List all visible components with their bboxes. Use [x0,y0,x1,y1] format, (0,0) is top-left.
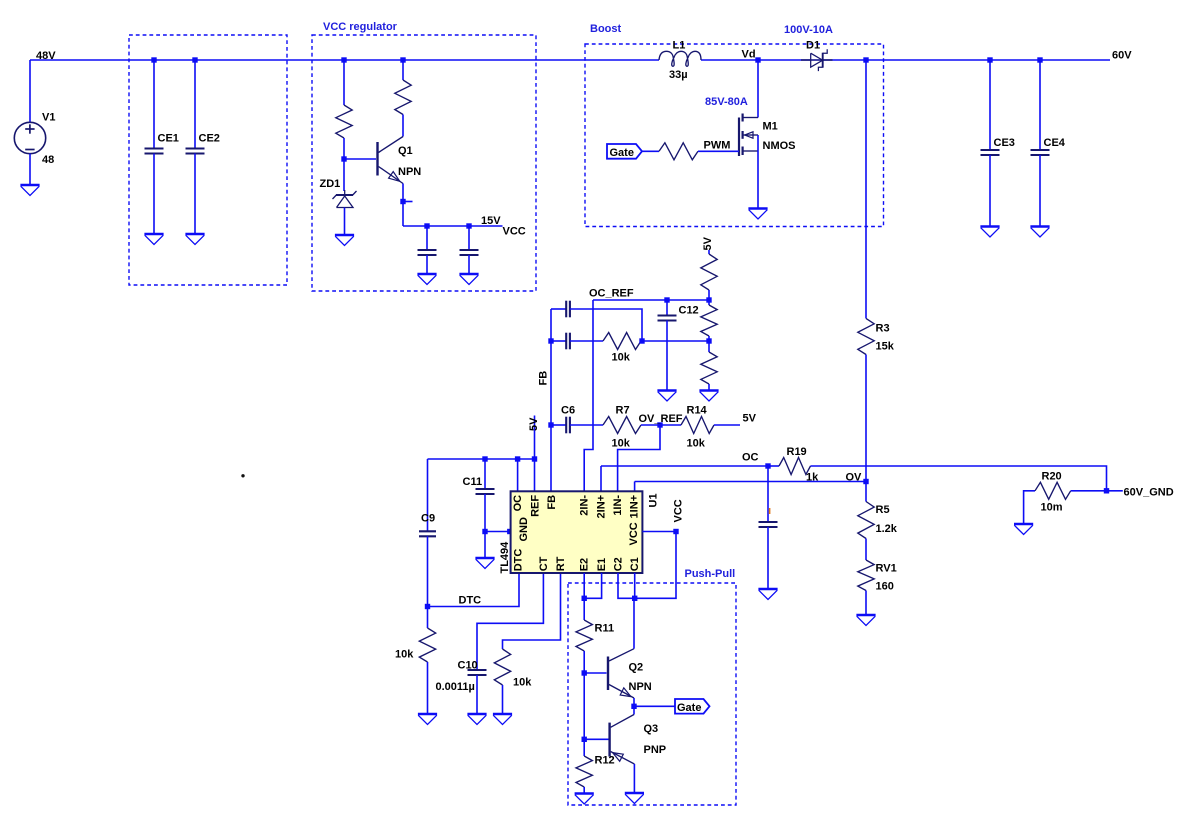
wire vcc cap2 bottom [468,255,470,274]
value PNP [644,744,667,756]
wire C1 drop [634,573,636,598]
wire C2 drop [618,573,635,598]
capacitor Cvcc2 (unlabeled) [460,250,479,255]
capacitor C12 [658,316,677,321]
pin E1 [596,558,608,571]
svg-text:V1: V1 [42,112,55,124]
svg-text:15V: 15V [481,215,501,227]
ground CE1 ground [144,234,163,245]
transistor Q2 NPN [608,649,634,698]
wire M1 drain up to Vd [757,60,759,118]
pin 2IN+ [595,495,607,519]
svg-text:M1: M1 [763,121,778,133]
svg-text:C9: C9 [421,513,435,525]
wire R5 to RV1 [865,539,867,561]
ground C11 ground [475,558,494,569]
wire CE4 bottom [1039,155,1041,227]
net label VCC [503,226,526,238]
net label OC_REF [589,288,634,300]
wire VCC down to C1C2 [635,532,676,599]
net label DTC [459,595,482,607]
svg-text:Vd: Vd [742,49,756,61]
wire Rdtc top lead [427,607,429,629]
svg-text:OC: OC [512,495,524,512]
comment box Boost [585,44,884,227]
wire R11 bottom lead [583,651,585,673]
wire CE2 top [194,60,196,149]
label CE4 [1044,137,1066,149]
svg-text:L1: L1 [673,40,686,52]
wire chain link1b [708,300,710,305]
resistor Rfb 10k [603,333,641,350]
value NMOS [763,140,796,152]
ground CE4 ground [1030,227,1049,238]
svg-text:R19: R19 [787,446,807,458]
capacitor CE2 [186,149,205,154]
node node OC [765,463,770,468]
net label 48V [36,50,56,62]
wire VCC pin wire [642,531,676,533]
svg-text:D1: D1 [806,40,820,52]
wire C6 to R7 [570,424,603,426]
resistor R14 [681,417,714,434]
net label OV_REF [639,413,683,425]
svg-text:TL494: TL494 [499,541,511,574]
svg-text:CT: CT [538,556,550,571]
node node FB-net at chain [706,338,711,343]
svg-text:CE3: CE3 [994,137,1015,149]
node node 60V_GND [1104,488,1109,493]
wire E2 drop [583,573,585,598]
wire row2 to chain [642,340,709,342]
ground CE2 ground [185,234,204,245]
resistor R11 [576,620,592,651]
svg-text:VCC: VCC [503,226,526,238]
wire C11 ground lead [484,532,486,559]
capacitor Cfb1 (unlabeled) [566,301,570,318]
net label 5V rotated (REF) [528,417,540,431]
ground R20 ground [1014,524,1033,535]
wire CE1 bottom [153,154,155,235]
wire V1 bottom lead [29,154,31,185]
svg-text:C10: C10 [458,660,478,672]
node node OV [863,479,868,484]
resistor Rrt 10k [494,649,510,685]
svg-text:1IN+: 1IN+ [629,495,641,519]
node 60V/CE4 [1037,57,1042,62]
svg-text:Gate: Gate [610,147,634,159]
node node FB/C6 [548,422,553,427]
svg-text:10m: 10m [1041,502,1063,514]
capacitor on OC (unlabeled) [759,522,778,527]
wire Q1 emitter down [402,184,404,227]
net label 5V (right) [743,413,757,425]
wire REF pin riser [534,459,536,491]
value 10k (Rfb) [612,352,631,364]
wire chain bottom [708,384,710,391]
wire Gate out wire [634,705,675,707]
ground C10 ground [467,714,486,725]
label R7 [616,405,630,417]
node 48V/CE2 [192,57,197,62]
svg-text:C1: C1 [629,557,641,571]
comment VCC regulator [323,21,398,33]
capacitor CE4 [1031,150,1050,155]
label C6 [561,405,575,417]
resistor R19 [779,458,811,475]
wire OC_REF down to 2IN- jog [584,300,593,491]
wire Q3 base wire [584,738,608,740]
resistor Rchain2 (unlabeled) [701,305,717,336]
wire R12 top lead [583,739,585,756]
wire R19 left lead [768,465,779,467]
wire CE3 top [989,60,991,150]
wire Q3 emitter down [633,764,635,793]
wire Q2 emitter down [633,698,635,706]
resistor R20 [1035,482,1071,499]
value 1k [806,472,819,484]
wire OC line from 2IN+ [601,465,768,467]
wire Rbias top lead [343,60,345,105]
resistor Rbias (unlabeled) [336,105,352,138]
comment 85V-80A [705,96,748,108]
value TL494 [499,541,511,574]
port flag Gate (input) [607,144,642,159]
svg-text:CE2: CE2 [199,133,220,145]
svg-text:DTC: DTC [512,549,524,572]
wire row2 left [551,340,566,342]
svg-text:PWM: PWM [704,140,731,152]
wire Rdtc bottom lead [427,662,429,714]
capacitor C6 [566,417,570,434]
wire 15V rail [403,225,503,227]
wire CE1 top [153,60,155,149]
wire E1 drop [584,573,601,598]
label D1 [806,40,820,52]
net label 60V [1112,50,1132,62]
wire C10 bottom lead [476,675,478,714]
wire R19 to 60V_GND corner [811,466,1107,491]
svg-text:160: 160 [876,581,894,593]
svg-text:Q2: Q2 [629,662,644,674]
wire Rrt bottom lead [502,685,504,714]
svg-text:E2: E2 [579,558,591,571]
node emitter stub node [400,199,405,204]
svg-text:C6: C6 [561,405,575,417]
svg-text:2IN+: 2IN+ [595,495,607,519]
ground Rdtc ground [418,714,437,725]
resistor Rchain1 (unlabeled) [701,254,717,290]
zener diode ZD1 [333,190,357,208]
ground Rrt ground [493,714,512,725]
value 0.0011u [436,681,475,693]
node node C12 top [664,297,669,302]
value 15k [876,341,895,353]
transistor Q3 PNP [610,715,635,765]
svg-text:5V: 5V [702,236,714,250]
wire 2IN+ riser [600,466,602,491]
comment box VCC regulator [312,35,536,291]
label C12 [679,305,699,317]
wire stub at emitter [405,201,413,203]
wire R14 to 5V [714,424,740,426]
ground Cvcc1 ground [417,274,436,285]
wire Rcoll top lead [402,60,404,80]
node node VCC label [673,529,678,534]
wire OC_REF line [593,299,709,301]
capacitor CE3 [981,150,1000,155]
svg-text:1IN-: 1IN- [612,495,624,516]
wire 5V stub up [534,416,536,460]
wire Q2 collector up [633,598,635,648]
label ZD1 [320,178,341,190]
comment Boost [590,23,622,35]
resistor R7 [603,417,641,434]
net label FB rotated [538,371,550,386]
resistor R5 [858,502,874,539]
value 160 [876,581,894,593]
wire chain 5V stub [708,250,710,254]
label M1 [763,121,778,133]
value NPN (Q2) [629,681,652,693]
label C9 [421,513,435,525]
svg-text:100V-10A: 100V-10A [784,24,833,36]
pin FB [546,495,558,510]
wire RT wire [503,573,561,649]
label CE2 [199,133,220,145]
port flag Gate (output) [675,699,710,714]
label Q2 [629,662,644,674]
capacitor Cvcc1 (unlabeled) [418,250,437,255]
wire R20 right lead [1071,490,1104,492]
node node row2 right [639,338,644,343]
label R5 [876,504,890,516]
wire C11 bottom lead [484,494,486,532]
pin REF [529,495,541,517]
node 48V/CE1 [151,57,156,62]
label R3 [876,323,890,335]
wire vcc cap1 bottom [426,255,428,274]
wire Q1 base wire [344,158,376,160]
value 10k (R7) [612,438,631,450]
pin RT [555,556,567,571]
wire C6 left [551,424,566,426]
wire zener top lead [343,159,345,191]
wire zener bottom lead [344,208,346,235]
pin GND [518,517,530,542]
ground M1 ground [748,209,767,220]
svg-text:15k: 15k [876,341,895,353]
orange artifact tick [769,508,771,514]
label C10 [458,660,478,672]
ground V1 ground [20,185,39,196]
capacitor C9 [419,531,436,536]
wire R5 top lead [865,482,867,502]
node node OC_REF at chain [706,297,711,302]
value 33u [669,69,688,81]
transistor M1 NMOS [739,114,758,157]
node node C1C2 [632,596,637,601]
resistor Rgate (unlabeled) [659,143,698,160]
transistor Q1 NPN [378,137,404,184]
svg-text:60V_GND: 60V_GND [1124,486,1174,498]
net label PWM [704,140,731,152]
net label VCC rotated [673,499,685,522]
wire V1 top lead [29,60,31,123]
label R12 [595,755,615,767]
wire Vd to D1 and 60V rail [701,59,1110,61]
wire chain link2 [708,336,710,341]
svg-text:PNP: PNP [644,744,667,756]
svg-text:VCC: VCC [628,522,640,545]
svg-text:10k: 10k [395,649,414,661]
node node GND pin at box [507,529,512,534]
pin 1IN+ [629,495,641,519]
svg-text:E1: E1 [596,558,608,571]
svg-text:Q3: Q3 [644,723,659,735]
resistor RV1 [858,560,874,591]
wire RV1 bottom lead [865,591,867,616]
op-amp U1 TL494 body [511,491,643,573]
wire Q3 collector from gate node [633,706,635,714]
wire CE2 bottom [194,154,196,235]
pin CT [538,556,550,571]
wire Rbias bottom lead [343,138,345,159]
svg-text:1k: 1k [806,472,819,484]
wire M1 source down [757,135,759,209]
net label 60V_GND [1124,486,1174,498]
svg-text:FB: FB [538,371,550,386]
net label Vd [742,49,756,61]
pin 1IN- [612,495,624,516]
svg-text:10k: 10k [687,438,706,450]
svg-text:REF: REF [529,495,541,517]
node node OV_REF [657,422,662,427]
svg-text:VCC regulator: VCC regulator [323,21,398,33]
wire R20 left lead [1024,491,1035,524]
ground R12 ground [575,794,594,805]
value 10k (Rrt) [513,677,532,689]
ground OC cap ground [758,589,777,600]
svg-text:R14: R14 [687,405,708,417]
wire gate wire resistor to M1 [698,150,739,152]
wire vcc cap2 top [468,226,470,250]
svg-text:C12: C12 [679,305,699,317]
diode D1 schottky [801,49,833,71]
label C11 [463,476,483,488]
value 10k (R14) [687,438,706,450]
value 10k (Rdtc) [395,649,414,661]
ground Q3 ground [625,793,644,804]
wire GND pin wire [485,531,511,533]
svg-text:10k: 10k [612,438,631,450]
label R11 [595,623,615,635]
ground chain ground [699,391,718,402]
svg-text:VCC: VCC [673,499,685,522]
label CE3 [994,137,1015,149]
wire C11 top lead [484,459,486,489]
node node Vd [755,57,760,62]
svg-text:Push-Pull: Push-Pull [685,568,736,580]
label R19 [787,446,807,458]
svg-text:FB: FB [546,495,558,510]
ground ZD1 ground [335,235,354,246]
label U1 [648,493,660,507]
svg-text:10k: 10k [612,352,631,364]
wire C9 bottom lead [427,536,429,606]
svg-text:R5: R5 [876,504,890,516]
svg-text:NPN: NPN [398,166,421,178]
wire gate wire flag to resistor [642,150,659,152]
node node GND pin [482,529,487,534]
wire chain link2b [708,341,710,352]
wire Rcoll bottom lead [402,115,404,137]
wire CE4 top [1039,60,1041,150]
node Q1 base node [341,156,346,161]
wire OC cap bottom [767,527,769,589]
net label 15V [481,215,501,227]
svg-text:OC_REF: OC_REF [589,288,634,300]
resistor R12 [576,756,592,787]
node node E1E2 [582,596,587,601]
svg-text:OV_REF: OV_REF [639,413,683,425]
wire 48V rail left of L1 [30,59,659,61]
wire vcc cap1 top [426,226,428,250]
wire top cap row left [551,308,566,310]
wire C12 top lead [666,300,668,316]
wire 60V tap down to R3 [865,60,867,318]
capacitor C11 [476,489,495,494]
label Q3 [644,723,659,735]
svg-text:RV1: RV1 [876,563,897,575]
wire top cap row right [570,309,642,341]
svg-text:NMOS: NMOS [763,140,796,152]
svg-text:85V-80A: 85V-80A [705,96,748,108]
node node Gate out [631,704,636,709]
svg-text:R3: R3 [876,323,890,335]
svg-text:1.2k: 1.2k [876,523,898,535]
wire R3 to OV [865,355,867,482]
node node Q2 base [582,670,587,675]
node 60V/CE3 [987,57,992,62]
wire chain link1 [708,290,710,300]
wire 1IN+ riser [634,482,636,492]
svg-text:RT: RT [555,556,567,571]
node node Q3 base [582,737,587,742]
wire R11 top lead [583,598,585,620]
svg-text:R12: R12 [595,755,615,767]
wire R12 bottom lead [583,787,585,794]
node bus/OC pin [515,456,520,461]
svg-text:Boost: Boost [590,23,622,35]
label R20 [1042,471,1062,483]
capacitor C10 [468,670,487,675]
svg-text:5V: 5V [743,413,757,425]
wire OC pin riser [517,459,519,491]
net label OV [846,472,863,484]
ground CE3 ground [980,227,999,238]
comment Push-Pull [685,568,736,580]
svg-text:CE4: CE4 [1044,137,1066,149]
wire OV line to 1IN+ [635,481,866,483]
wire DTC wire [428,573,520,607]
svg-text:Q1: Q1 [398,145,413,157]
wire CE3 bottom [989,155,991,227]
wire row2 mid [570,340,603,342]
capacitor CE1 [145,149,164,154]
svg-text:U1: U1 [648,493,660,507]
resistor Rcoll (unlabeled) [395,80,411,115]
